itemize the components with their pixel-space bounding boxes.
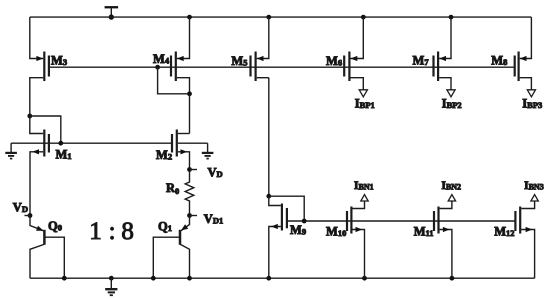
svg-text:IBP2: IBP2 bbox=[442, 97, 462, 111]
label IBN3 bbox=[524, 180, 544, 192]
node M9 drain junction bbox=[266, 194, 271, 199]
wire M4 gate-drain diode connection bbox=[155, 65, 192, 96]
svg-text:R0: R0 bbox=[166, 181, 179, 196]
svg-text:M7: M7 bbox=[413, 54, 430, 68]
transistor Q1 bbox=[153, 216, 189, 279]
junction Q0 base on ground rail bbox=[62, 276, 67, 281]
junction M11 source on ground rail bbox=[450, 276, 455, 281]
transistor Q0 bbox=[30, 216, 64, 279]
svg-text:IBN2: IBN2 bbox=[441, 180, 461, 192]
ground symbol main bbox=[105, 278, 117, 295]
label ratio 1:8 bbox=[89, 218, 134, 245]
transistor M4 bbox=[153, 17, 190, 133]
junction M9 source on ground rail bbox=[266, 276, 271, 281]
svg-text:IBN1: IBN1 bbox=[354, 180, 374, 192]
transistor M3 bbox=[30, 17, 67, 116]
node VD left bbox=[25, 213, 33, 218]
ground symbol left bbox=[5, 143, 17, 158]
power supply VDD symbol bbox=[105, 6, 119, 20]
junction on VDD rail at M7 column bbox=[449, 15, 454, 20]
node VD1 bbox=[187, 213, 197, 218]
wire M5 drain to M9 drain bbox=[268, 78, 270, 197]
wire VDD rail bbox=[30, 16, 532, 18]
current output arrow IBN3 bbox=[531, 195, 538, 201]
svg-text:M4: M4 bbox=[153, 52, 170, 66]
junction M10 source on ground rail bbox=[362, 276, 367, 281]
resistor R0 bbox=[166, 170, 194, 216]
wire gate bus M3-M8 bbox=[49, 66, 515, 68]
svg-text:1:8: 1:8 bbox=[89, 218, 134, 245]
transistor M5 bbox=[231, 17, 268, 81]
wire M2 bulk to ground bbox=[178, 142, 208, 144]
transistor M1 bbox=[30, 116, 72, 216]
current output arrow IBP2 bbox=[447, 90, 455, 97]
wire ground rail bbox=[30, 277, 535, 279]
wire M1 bulk and gate bus M1-M2 bbox=[11, 142, 172, 144]
transistor M8 bbox=[491, 17, 531, 90]
label VD1 bbox=[204, 212, 223, 226]
transistor M11 bbox=[414, 201, 452, 278]
junction ground symbol on rail bbox=[109, 276, 114, 281]
label IBP1 bbox=[355, 97, 375, 111]
wire M1 gate-drain diode connection bbox=[30, 116, 63, 146]
current output arrow IBN1 bbox=[361, 195, 368, 201]
transistor M6 bbox=[326, 17, 363, 90]
label IBN1 bbox=[354, 180, 374, 192]
junction Q1 collector on ground rail bbox=[187, 276, 192, 281]
svg-text:VD1: VD1 bbox=[204, 212, 223, 226]
label VD right bbox=[208, 166, 223, 180]
svg-text:IBP3: IBP3 bbox=[522, 97, 542, 111]
transistor M10 bbox=[326, 201, 365, 278]
junction node M1 drain / M3 drain bbox=[27, 114, 32, 119]
svg-text:IBP1: IBP1 bbox=[355, 97, 375, 111]
node VD right bbox=[187, 167, 197, 172]
current output arrow IBN2 bbox=[448, 195, 455, 201]
current output arrow IBP1 bbox=[359, 90, 367, 97]
svg-text:Q0: Q0 bbox=[48, 219, 62, 233]
current output arrow IBP3 bbox=[527, 90, 535, 97]
svg-text:M12: M12 bbox=[494, 225, 514, 239]
svg-text:IBN3: IBN3 bbox=[524, 180, 544, 192]
transistor M12 bbox=[494, 201, 534, 278]
junction on VDD rail at M6 column bbox=[361, 15, 366, 20]
svg-text:M1: M1 bbox=[56, 147, 72, 161]
wire M9 gate-drain diode connection bbox=[269, 196, 307, 223]
svg-text:M2: M2 bbox=[156, 148, 172, 162]
transistor M9 bbox=[269, 196, 306, 278]
svg-text:Q1: Q1 bbox=[158, 219, 172, 233]
label IBP2 bbox=[442, 97, 462, 111]
svg-text:VD: VD bbox=[13, 201, 28, 215]
svg-text:M11: M11 bbox=[414, 225, 434, 239]
svg-text:M3: M3 bbox=[51, 54, 67, 68]
svg-text:M6: M6 bbox=[326, 54, 342, 68]
svg-text:VD: VD bbox=[208, 166, 223, 180]
svg-text:M10: M10 bbox=[326, 225, 346, 239]
transistor M7 bbox=[413, 17, 452, 90]
junction on VDD rail at M4 column bbox=[187, 15, 192, 20]
junction on VDD rail at M5 column bbox=[266, 15, 271, 20]
svg-text:M8: M8 bbox=[491, 54, 507, 68]
wire gate bus M9-M12 bbox=[287, 220, 516, 222]
junction Q1 base on ground rail bbox=[151, 276, 156, 281]
label VD left bbox=[13, 201, 28, 215]
svg-text:M9: M9 bbox=[290, 223, 306, 237]
svg-text:M5: M5 bbox=[231, 54, 247, 68]
ground symbol at M2 bulk bbox=[202, 143, 214, 158]
transistor M2 bbox=[156, 130, 190, 170]
label IBP3 bbox=[522, 97, 542, 111]
label IBN2 bbox=[441, 180, 461, 192]
